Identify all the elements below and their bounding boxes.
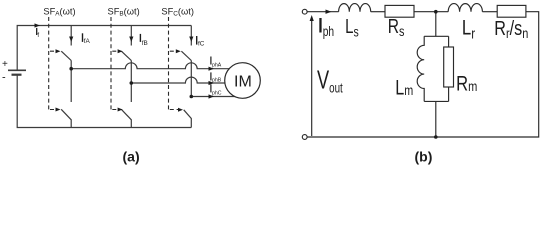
svg-text:Rr/sn: Rr/sn: [494, 17, 528, 41]
node bottom junction: [434, 135, 438, 139]
svg-text:Rs: Rs: [388, 15, 405, 39]
svg-text:fC: fC: [198, 41, 205, 48]
node top junction: [434, 10, 438, 14]
svg-text:(b): (b): [415, 149, 433, 165]
control line SFA dashed: [49, 17, 180, 110]
svg-text:Iph: Iph: [318, 13, 334, 39]
wire parallel bottom bar: [424, 100, 448, 102]
label IfB: [139, 34, 141, 42]
control arrow SFB lower: [112, 109, 119, 111]
wire Rm bottom lead: [448, 87, 450, 101]
arrowhead SFB upper: [118, 49, 123, 53]
current arrow IphC: [209, 94, 215, 98]
switch SC1 blade: [181, 51, 191, 60]
svg-text:f: f: [37, 32, 39, 39]
wire Ls to Rs: [371, 11, 385, 13]
current arrow IphA: [209, 67, 215, 71]
wire parallel top bar: [424, 35, 448, 37]
current arrow If on dc bus: [35, 23, 41, 27]
control arrow SFC upper: [170, 50, 178, 52]
label IphB: [210, 72, 212, 80]
switch SC2 blade: [184, 110, 192, 128]
label If: [36, 28, 38, 35]
control arrow SFA upper: [50, 50, 58, 52]
label IfC: [196, 36, 198, 45]
leg B mid wire: [130, 61, 132, 84]
switch SA2 blade: [61, 109, 71, 127]
svg-text:(a): (a): [123, 149, 140, 165]
inductor Lr: [448, 4, 482, 12]
label IphC: [210, 84, 212, 92]
svg-text:-: -: [2, 72, 6, 84]
arrowhead SFA lower: [56, 108, 61, 112]
leg B upper wire: [130, 26, 132, 46]
leg A mid wire: [70, 61, 72, 69]
motor M1: [225, 63, 261, 99]
wire phase A with hops: [71, 63, 243, 69]
switch SB1 blade: [121, 51, 131, 60]
resistor Rr/sn: [497, 5, 526, 17]
wire magnetizing branch top: [435, 12, 437, 37]
svg-text:SFB(ωt): SFB(ωt): [108, 6, 140, 17]
svg-text:SFC(ωt): SFC(ωt): [161, 6, 194, 17]
svg-text:SFA(ωt): SFA(ωt): [43, 6, 75, 17]
svg-text:Lr: Lr: [462, 17, 476, 42]
svg-text:Ls: Ls: [345, 15, 359, 40]
svg-text:+: +: [2, 59, 8, 70]
svg-text:Rm: Rm: [456, 73, 477, 96]
control arrow SFA lower: [50, 109, 58, 111]
wire dc positive bus: [17, 26, 191, 71]
svg-text:phB: phB: [212, 77, 222, 83]
node A junction: [69, 67, 73, 71]
leg C mid wire: [190, 61, 192, 97]
label IphA: [210, 57, 212, 65]
current arrow IfC: [189, 37, 193, 43]
terminal plus: [302, 9, 307, 14]
current arrow IfB: [129, 37, 133, 43]
leg B lower wire: [130, 83, 132, 102]
battery B1 plate short: [12, 74, 22, 76]
control line SFC dashed: [168, 17, 170, 110]
inductor Lm: [417, 36, 424, 101]
resistor Rs: [385, 5, 414, 17]
control line SFB dashed: [110, 17, 112, 110]
leg A lower wire: [70, 69, 72, 102]
control arrow SFC lower: [170, 109, 180, 111]
leg A upper wire: [70, 26, 72, 46]
wire Rm top lead: [448, 36, 450, 47]
wire phase B with hop: [131, 77, 243, 83]
current arrow IphB: [209, 81, 215, 85]
arrowhead Vout: [310, 15, 314, 21]
wire Lr to Rr: [482, 11, 497, 13]
wire top rail left: [307, 11, 339, 13]
leg C upper wire: [190, 26, 192, 46]
battery B1 plate long: [8, 69, 26, 71]
inductor Ls: [339, 4, 371, 12]
current arrow Iph: [326, 10, 332, 14]
switch SB2 blade: [121, 109, 131, 127]
arrowhead SFC lower: [178, 108, 183, 112]
svg-text:IM: IM: [234, 74, 252, 91]
svg-text:Vout: Vout: [317, 65, 343, 96]
svg-text:phC: phC: [212, 91, 222, 97]
terminal minus: [302, 135, 307, 140]
current arrow IfA: [69, 37, 73, 43]
svg-text:fB: fB: [142, 40, 148, 47]
switch SA1 blade: [61, 51, 71, 60]
arrowhead SFC upper: [176, 49, 181, 53]
wire Rs to node: [414, 11, 448, 13]
control arrow SFB upper: [112, 50, 119, 52]
arrowhead SFB lower: [118, 108, 123, 112]
wire magnetizing branch bottom: [435, 101, 437, 137]
wire phase C: [191, 96, 243, 98]
node B junction: [130, 81, 134, 85]
wire right rail: [307, 12, 539, 137]
arrow Vout shaft: [311, 18, 313, 136]
label IfA: [82, 33, 84, 42]
svg-text:fA: fA: [84, 38, 91, 45]
resistor Rm: [444, 47, 454, 87]
wire dc negative bus: [17, 75, 191, 128]
node C junction: [190, 95, 194, 99]
svg-text:phA: phA: [212, 63, 222, 69]
arrowhead SFA upper: [56, 49, 61, 53]
svg-text:Lm: Lm: [395, 75, 413, 99]
